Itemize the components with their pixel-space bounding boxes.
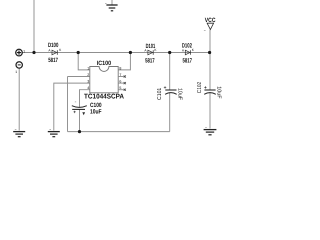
diode D100 <box>52 50 57 55</box>
ground top <box>105 3 118 10</box>
wire pin4 to C100 <box>80 90 90 108</box>
ground right (C102) <box>204 128 217 135</box>
wire minus connector to ground <box>18 68 20 131</box>
diode D101 <box>148 50 153 55</box>
junction node C102 VCC <box>208 51 211 54</box>
svg-text:5817: 5817 <box>183 57 193 64</box>
wire pin2 riser <box>67 77 69 132</box>
svg-text:1: 1 <box>87 66 89 70</box>
junction node pin8 riser <box>129 51 132 54</box>
wire C100 bottom lead <box>79 110 81 132</box>
svg-text:10uF: 10uF <box>90 109 102 116</box>
ground middle (pin3) <box>48 130 60 137</box>
svg-text:VCC: VCC <box>205 17 216 24</box>
svg-text:1: 1 <box>15 70 17 74</box>
wire C101 top lead <box>169 53 171 91</box>
svg-text:+: + <box>73 111 76 116</box>
wire VCC to rail to C102 top <box>209 30 211 91</box>
svg-text:C101: C101 <box>157 88 163 100</box>
wire main rail <box>22 52 210 54</box>
svg-text:+: + <box>204 86 207 91</box>
wire bottom rail <box>68 131 170 133</box>
junction node at x=34 <box>32 51 35 54</box>
VCC symbol <box>207 23 214 29</box>
svg-text:5817: 5817 <box>48 57 58 64</box>
svg-text:5: 5 <box>119 86 121 90</box>
wire pin1 riser <box>78 53 90 70</box>
capacitor C100 <box>72 106 87 110</box>
ground left (minus lead) <box>13 130 25 137</box>
junction node C101 top <box>168 51 171 54</box>
IC100 right pin stubs <box>118 77 124 90</box>
junction node C100 bottom <box>78 130 81 133</box>
IC100 DIP8 body <box>90 67 118 93</box>
svg-text:2: 2 <box>87 73 89 77</box>
svg-text:IC100: IC100 <box>97 60 112 67</box>
svg-text:6: 6 <box>119 80 121 84</box>
wire pin2 stub <box>68 76 90 78</box>
svg-text:10uF: 10uF <box>215 86 221 99</box>
wire pin3 to ground <box>54 83 90 130</box>
connector X2 minus <box>16 62 22 68</box>
junction node pin1 riser <box>77 51 80 54</box>
capacitor C101 <box>165 90 177 94</box>
wire C101 bottom lead <box>169 92 171 131</box>
wire C102 bottom lead <box>209 92 211 128</box>
svg-text:C102: C102 <box>197 82 203 93</box>
wire pin8 riser <box>118 53 130 70</box>
connector X1 plus <box>16 49 23 56</box>
capacitor C102 <box>204 90 216 94</box>
svg-text:1: 1 <box>23 50 25 54</box>
svg-text:5817: 5817 <box>145 57 155 64</box>
svg-text:10uF: 10uF <box>176 88 182 101</box>
no-connect x pin7 pin6 pin5 <box>124 75 126 90</box>
svg-text:TC1044SCPA: TC1044SCPA <box>84 93 124 100</box>
pin numbers right 8-5 <box>119 66 121 90</box>
svg-text:8: 8 <box>119 66 121 70</box>
wire top ground lead <box>111 0 113 5</box>
pin numbers left 1-4 <box>87 66 89 90</box>
wire top-left vertical <box>33 0 35 53</box>
svg-text:4: 4 <box>87 86 89 90</box>
svg-text:+: + <box>164 86 167 91</box>
svg-text:3: 3 <box>87 80 89 84</box>
svg-text:7: 7 <box>119 73 121 77</box>
diode D102 <box>185 50 190 55</box>
